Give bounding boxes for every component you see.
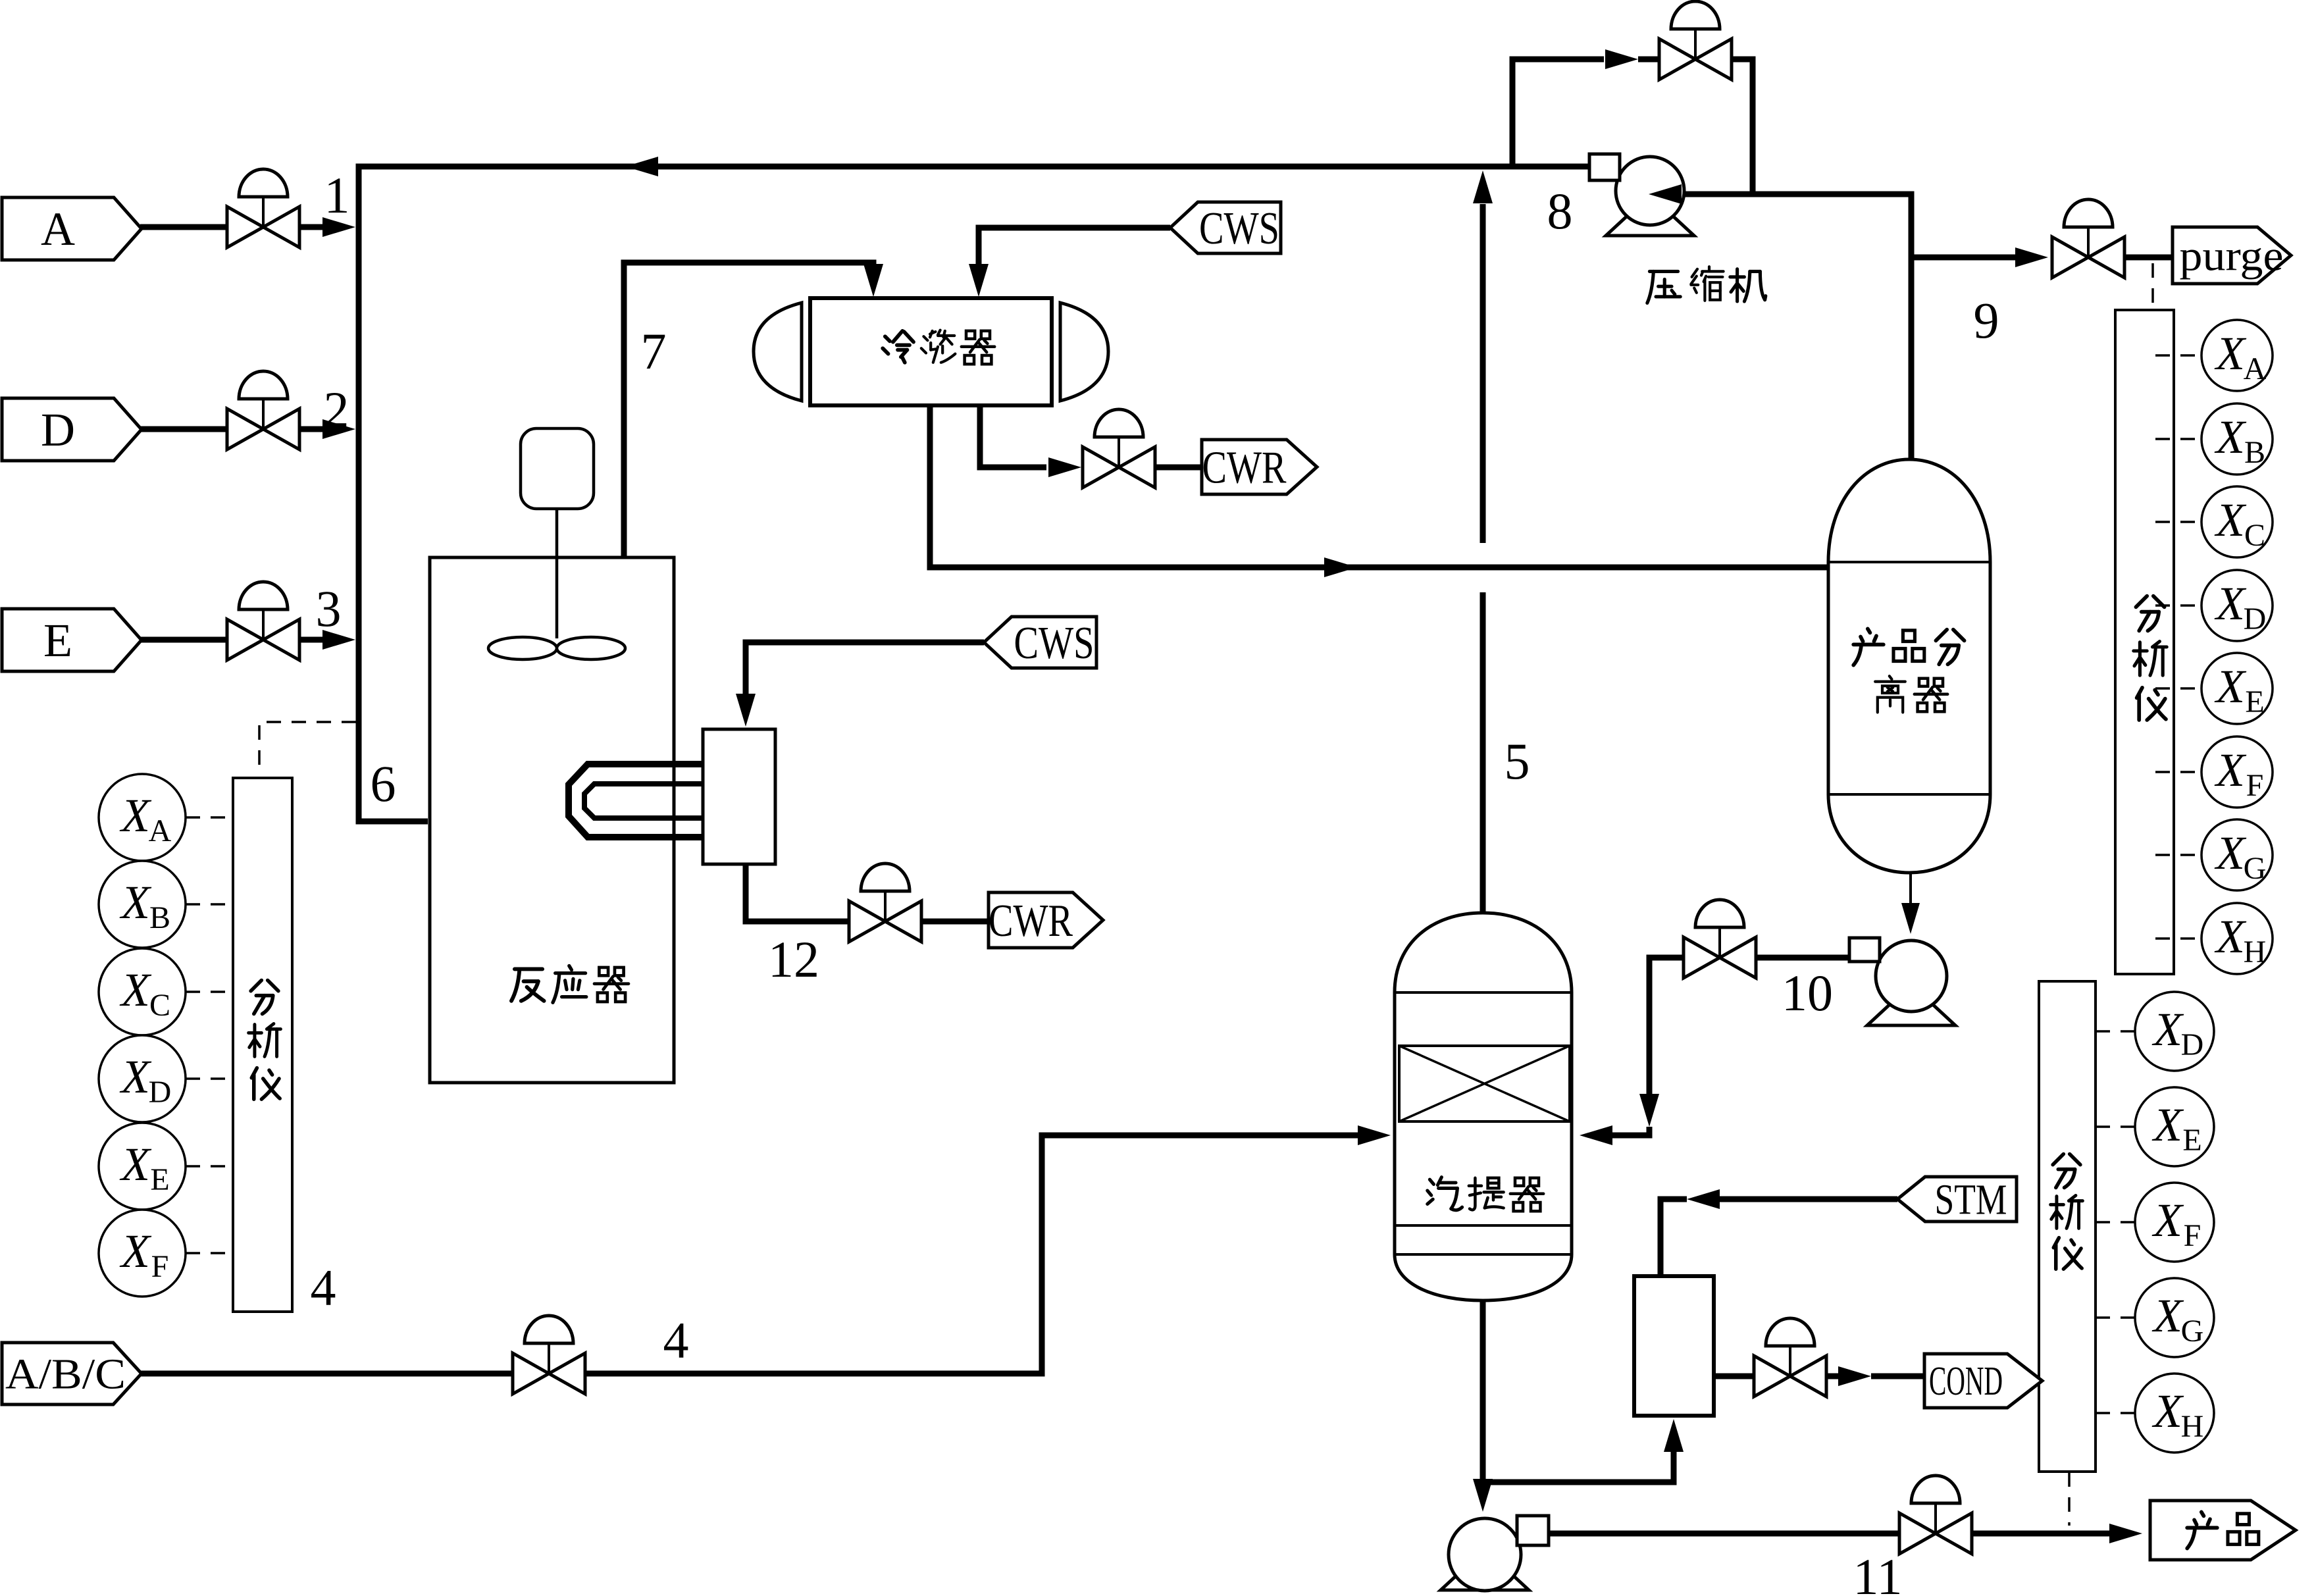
svg-text:X: X (2214, 660, 2247, 713)
feed flag A/B/C (2, 1343, 142, 1404)
svg-text:G: G (2244, 851, 2267, 886)
control valve 11 (product) (1899, 1476, 1972, 1554)
arrow into reboiler (1664, 1419, 1684, 1452)
svg-text:D: D (2244, 602, 2267, 636)
stream number label 1 at (512,296) (324, 167, 350, 224)
svg-text:A: A (41, 203, 75, 255)
arrow CWS into condenser (969, 264, 989, 297)
svg-text:X: X (2151, 1289, 2184, 1342)
svg-text:X: X (2151, 1098, 2184, 1151)
feed flag E (2, 609, 142, 671)
separator label 产品分离器 (1853, 629, 1964, 712)
analyzer 3 label 分析仪 (2051, 1154, 2083, 1269)
flag CWR reactor (989, 892, 1103, 948)
arrow stream 5 joins recycle (1473, 170, 1493, 203)
agitator motor (521, 428, 594, 638)
analyzer 3 box (2039, 981, 2096, 1472)
coil connection box (703, 729, 775, 864)
stream number label 8 at (2370,320) (1547, 182, 1573, 240)
compressor (1589, 154, 1694, 236)
stream number label 11 at (2853,2395) (1853, 1548, 1902, 1596)
svg-text:X: X (2214, 494, 2247, 546)
svg-text:CWR: CWR (989, 896, 1073, 946)
svg-text:X: X (2214, 827, 2247, 879)
stream number label 9 at (3018,486) (1974, 292, 1999, 349)
wire separator overhead to compressor suction (1685, 194, 1911, 459)
condenser right cap (1060, 303, 1108, 401)
wire stripper bottoms (1483, 1300, 1674, 1482)
svg-text:E: E (2182, 1123, 2201, 1158)
wire feed D line stream 2 (140, 426, 326, 432)
arrow CWS into coil box (736, 694, 756, 727)
flag COND condensate (1924, 1354, 2042, 1408)
control valve 4 (A/B/C feed) (513, 1316, 585, 1394)
arrow stream 7 into condenser (863, 264, 883, 297)
analyzer 2 dashed connectors (2155, 355, 2202, 939)
analyzer 1 composition circles XA-XF (99, 774, 186, 1297)
product separator vessel (1828, 459, 1990, 873)
svg-text:X: X (119, 1225, 152, 1277)
arrow recycle flow left (625, 157, 658, 176)
svg-text:3: 3 (316, 580, 342, 637)
analyzer 1 dashed connectors (186, 817, 233, 1253)
wire stream 5 stripper overhead riser (1480, 204, 1486, 915)
control valve compressor bypass (1659, 1, 1732, 80)
svg-text:X: X (119, 1050, 152, 1103)
svg-text:H: H (2244, 935, 2267, 969)
wire recycle line stream 8 (compressor discharge to feed header) (359, 167, 1591, 821)
stream number label 5 at (2305,1156) (1505, 733, 1530, 790)
arrow into CWR valve (1048, 457, 1081, 477)
compressor label 压缩机 (1647, 267, 1766, 303)
svg-text:STM: STM (1935, 1175, 2007, 1223)
arrow condensate to separator (1324, 557, 1357, 577)
arrow into compressor (1649, 184, 1682, 204)
svg-text:A/B/C: A/B/C (5, 1350, 126, 1398)
flag CWR condenser (1202, 440, 1317, 494)
arrow feed E into header (322, 630, 355, 650)
reactor cooling coil (bayonet) (569, 764, 703, 837)
svg-text:E: E (43, 614, 72, 667)
svg-text:H: H (2181, 1409, 2204, 1444)
wire CWS to reactor coil (746, 642, 984, 696)
svg-text:X: X (2214, 411, 2247, 463)
wire product line stream 11 (1547, 1531, 2109, 1537)
arrow steam (1687, 1189, 1720, 1209)
flag product 产品 (2150, 1501, 2296, 1560)
analyzer 3 dashed connectors (2096, 1031, 2135, 1413)
svg-text:X: X (119, 876, 152, 929)
agitator impeller (488, 637, 625, 659)
svg-text:12: 12 (768, 931, 819, 988)
wire compressor bypass (1512, 59, 1753, 192)
analyzer 1 box (233, 778, 292, 1312)
wire feed A line stream 1 (140, 224, 326, 230)
svg-text:1: 1 (324, 167, 350, 224)
control valve 1 (feed A) (227, 169, 299, 247)
wire condenser cooling water return (980, 405, 1202, 467)
svg-text:E: E (150, 1162, 169, 1197)
arrow stream 10 into stripper (1580, 1125, 1612, 1145)
arrow condensate (1838, 1366, 1871, 1386)
arrow feed A into header (322, 217, 355, 237)
arrow purge (2015, 247, 2048, 267)
stream number label 7 at (993,533) (641, 322, 667, 380)
svg-text:E: E (2245, 684, 2264, 719)
arrow stream 10 down (1639, 1094, 1659, 1127)
analyzer 2 label 分析仪 (2134, 596, 2167, 720)
svg-text:6: 6 (371, 755, 396, 812)
svg-text:C: C (2244, 518, 2265, 553)
control valve 2 (feed D) (227, 371, 299, 450)
svg-text:10: 10 (1782, 964, 1833, 1021)
arrow product (2109, 1524, 2142, 1543)
separator pump (1849, 938, 1955, 1025)
flag STM steam (1897, 1175, 2017, 1223)
analyzer 3 composition circles XD-XH (2135, 992, 2214, 1453)
svg-text:X: X (2214, 910, 2247, 963)
stream number label 3 at (499,924) (316, 580, 342, 637)
flag purge (2173, 227, 2291, 284)
stripper label 汽提器 (1428, 1177, 1543, 1212)
condenser label 冷凝器 (883, 330, 994, 365)
svg-text:X: X (2151, 1385, 2184, 1437)
wire separator bottoms to pump (1909, 873, 1912, 903)
arrow into compressor suction (1649, 184, 1682, 204)
svg-text:purge: purge (2180, 232, 2284, 280)
arrow feed D into header (322, 419, 355, 439)
stream number label 4 at (1027,2036) (663, 1312, 689, 1369)
wire condenser outlet to separator (930, 405, 1828, 567)
svg-text:X: X (2214, 577, 2247, 630)
svg-text:4: 4 (311, 1259, 336, 1316)
feed flag D (2, 398, 142, 461)
analyzer 2 composition circles XA-XH (2201, 320, 2273, 974)
svg-text:X: X (119, 1138, 152, 1191)
wire condensate COND line (1714, 1374, 1924, 1379)
svg-text:F: F (151, 1249, 169, 1284)
wire stream 10 separator liquid to stripper (1612, 958, 1853, 1135)
svg-text:B: B (149, 900, 170, 935)
stream number label 4 at (491,1956) (311, 1259, 336, 1316)
stream number label 12 at (1206,1457) (768, 931, 819, 988)
analyzer 1 label 分析仪 (249, 980, 281, 1099)
reactor vessel (430, 557, 674, 1083)
wire reactor coil return stream 12 (746, 864, 989, 921)
control valve condenser CWR (1083, 409, 1155, 488)
svg-text:2: 2 (324, 381, 349, 438)
dashed sample line purge to analyzer 2 (2151, 263, 2154, 308)
svg-text:9: 9 (1974, 292, 1999, 349)
svg-text:X: X (119, 964, 152, 1016)
svg-text:B: B (2244, 435, 2265, 470)
svg-text:X: X (119, 789, 152, 842)
control valve 3 (feed E) (227, 582, 299, 660)
wire steam line STM (1660, 1199, 1897, 1276)
stream number label 2 at (511,622) (324, 381, 349, 438)
stripper vessel (1395, 913, 1572, 1300)
arrow bypass (1605, 49, 1638, 69)
svg-text:CWR: CWR (1202, 442, 1287, 493)
dashed sample line to analyzer 1 (259, 722, 356, 775)
svg-text:COND: COND (1929, 1359, 2003, 1404)
wire A/B/C feed line stream 4 (140, 1135, 1358, 1374)
analyzer 2 box (2115, 310, 2174, 974)
svg-text:D: D (149, 1075, 172, 1110)
svg-text:F: F (2246, 768, 2264, 803)
feed flag A (2, 197, 142, 260)
arrow stream 4 into stripper (1358, 1125, 1391, 1145)
arrow separator bottoms (1901, 903, 1920, 934)
svg-text:F: F (2184, 1218, 2201, 1253)
control valve purge (stream 9) (2052, 199, 2124, 278)
svg-text:11: 11 (1853, 1548, 1902, 1596)
control valve 12 (reactor CWR) (849, 863, 921, 942)
svg-text:8: 8 (1547, 182, 1573, 240)
svg-text:X: X (2151, 1194, 2184, 1247)
svg-text:CWS: CWS (1199, 203, 1279, 254)
wire stream 7 reactor vapor to condenser (624, 263, 873, 602)
wire purge line stream 9 (1911, 255, 2173, 261)
svg-text:X: X (2214, 327, 2247, 380)
svg-text:C: C (149, 988, 170, 1023)
stream number label 6 at (582,1190) (371, 755, 396, 812)
svg-text:X: X (2151, 1003, 2184, 1056)
svg-text:7: 7 (641, 322, 667, 380)
svg-text:A: A (2244, 351, 2267, 386)
svg-text:G: G (2181, 1314, 2204, 1349)
condenser left cap (754, 303, 802, 401)
svg-text:CWS: CWS (1014, 618, 1094, 669)
control valve 10 (separator underflow) (1684, 900, 1756, 978)
flag CWS condenser (1170, 202, 1281, 254)
flag CWS reactor (984, 617, 1096, 669)
control valve condensate (1754, 1318, 1826, 1397)
svg-text:X: X (2214, 744, 2247, 796)
svg-text:A: A (149, 813, 172, 848)
stream number label 10 at (2746,1508) (1782, 964, 1833, 1021)
reactor label 反应器 (511, 965, 629, 1002)
stripper packing (1399, 1046, 1570, 1121)
svg-text:D: D (41, 403, 75, 456)
dashed sample line product to analyzer 3 (2068, 1472, 2071, 1526)
svg-text:4: 4 (663, 1312, 689, 1369)
wire feed E line stream 3 (140, 637, 326, 643)
stripper bottoms pump (1441, 1516, 1549, 1591)
svg-text:D: D (2181, 1027, 2204, 1062)
arrow stripper bottoms to pump (1473, 1479, 1493, 1512)
svg-text:5: 5 (1505, 733, 1530, 790)
wire CWS supply to condenser (979, 228, 1170, 269)
reboiler (1634, 1276, 1714, 1416)
condenser shell (810, 298, 1052, 405)
